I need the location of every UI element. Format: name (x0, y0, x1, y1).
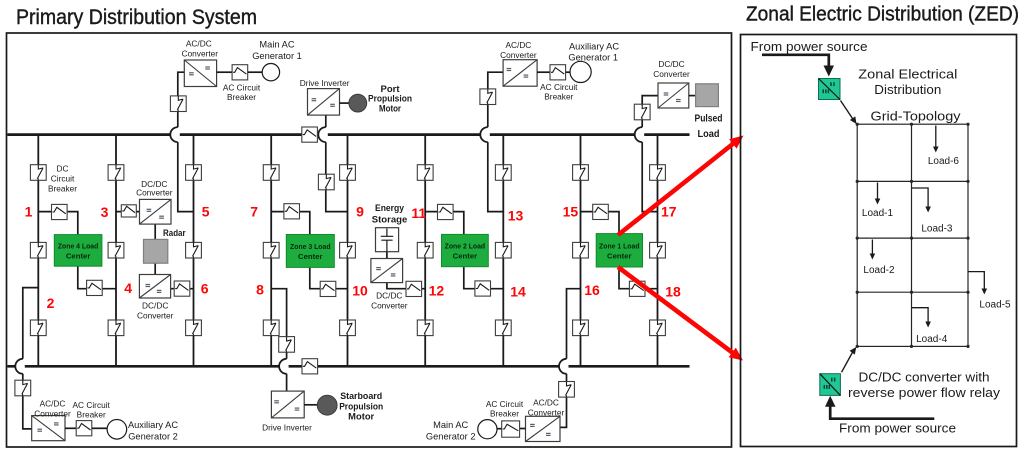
svg-text:Zone 3 Load: Zone 3 Load (290, 242, 331, 251)
svg-text:17: 17 (661, 204, 677, 220)
zone 3 load center (286, 235, 334, 268)
breaker pulsed feed (634, 104, 650, 120)
wire converter1 to breaker (217, 71, 233, 73)
wire radar to lower dcdc converter (154, 263, 156, 274)
wire zone2 top branch (425, 212, 464, 235)
wire bottom bus (7, 365, 689, 368)
breaker zone3 top branch (284, 204, 300, 219)
breaker v3 bottom row (186, 320, 202, 336)
wire zone1 top branch (581, 212, 620, 234)
breaker radar top (121, 205, 136, 217)
jump drive inverter2 feed over bottom bus (279, 359, 288, 374)
svg-text:AC/DC: AC/DC (505, 40, 531, 50)
svg-text:12: 12 (429, 283, 445, 299)
svg-text:Circuit: Circuit (51, 173, 75, 183)
breaker v5 middle row (340, 242, 356, 258)
wire top bus (7, 133, 689, 136)
right panel frame (741, 35, 1017, 447)
svg-text:AC Circuit: AC Circuit (223, 83, 261, 93)
jump drive inverter feed over top bus (318, 127, 328, 142)
svg-text:Drive Inverter: Drive Inverter (300, 78, 350, 88)
breaker v1 middle row (30, 242, 46, 258)
svg-text:Zone 4 Load: Zone 4 Load (58, 242, 99, 251)
svg-text:AC/DC: AC/DC (186, 39, 212, 49)
svg-text:2: 2 (47, 295, 55, 311)
svg-text:Propulsion: Propulsion (339, 401, 383, 411)
energy storage capacitor (376, 228, 399, 252)
breaker zone1 top branch (593, 204, 609, 219)
svg-text:8: 8 (256, 282, 264, 298)
ZED dc-dc converter bottom (820, 374, 841, 396)
svg-text:1: 1 (25, 204, 33, 220)
breaker v8 middle row (573, 242, 589, 258)
svg-text:Motor: Motor (348, 412, 374, 422)
main AC generator 2 (478, 420, 497, 439)
breaker v9 top row (650, 165, 666, 181)
svg-text:Distribution: Distribution (874, 82, 941, 97)
arrow load-5 (968, 272, 987, 295)
svg-text:Motor: Motor (379, 104, 401, 114)
pulsed load (696, 84, 719, 107)
svg-text:Breaker: Breaker (490, 409, 519, 419)
breaker drive inverter feed (318, 174, 334, 190)
wire vertical feeder v1 (37, 135, 39, 367)
arrow load-3 (912, 188, 931, 213)
starboard propulsion motor M2 (317, 395, 337, 415)
wire drive inverter2 feed (271, 289, 286, 391)
svg-text:Radar: Radar (163, 228, 186, 238)
svg-text:10: 10 (352, 283, 368, 299)
svg-text:AC Circuit: AC Circuit (540, 82, 578, 92)
wire inverter to port motor (340, 102, 350, 104)
dc-dc converter radar top (140, 199, 172, 224)
arrow from power source top (762, 55, 834, 77)
svg-text:reverse power flow relay: reverse power flow relay (848, 385, 1001, 400)
svg-text:13: 13 (508, 208, 524, 224)
ac circuit breaker CB1 (232, 65, 248, 80)
svg-text:Load-1: Load-1 (862, 208, 894, 219)
breaker maingen2 feed (559, 382, 575, 398)
svg-text:Center: Center (298, 252, 323, 261)
svg-text:9: 9 (356, 204, 364, 220)
wire converter2 feed (488, 72, 504, 211)
svg-text:Generator 1: Generator 1 (568, 53, 618, 63)
ac-dc converter U7 (526, 416, 561, 441)
breaker v4 top row (263, 165, 279, 181)
dc-dc converter energy storage (371, 259, 403, 283)
wire zone1 bottom branch (619, 267, 658, 289)
auxiliary AC generator 1 (570, 61, 591, 82)
svg-text:AC Circuit: AC Circuit (486, 399, 524, 409)
svg-text:Converter: Converter (500, 50, 537, 60)
breaker radar bottom (174, 281, 190, 296)
breaker v5 bottom row (340, 320, 356, 336)
svg-text:AC Circuit: AC Circuit (73, 400, 111, 410)
svg-text:Breaker: Breaker (77, 410, 106, 420)
breaker v5 top row (340, 165, 356, 181)
wire zone4 top branch (38, 212, 78, 235)
breaker zone4 top branch (52, 204, 68, 219)
wire zone3 top branch (271, 212, 310, 235)
wire converter1 feed (178, 72, 194, 211)
svg-text:Converter: Converter (182, 49, 219, 59)
wire vertical feeder v4 (270, 135, 272, 367)
breaker v2 top row (108, 165, 124, 181)
wire vertical feeder v8 (580, 135, 582, 367)
svg-text:Zonal Electrical: Zonal Electrical (858, 67, 957, 82)
wire drive inverter feed (326, 115, 348, 212)
breaker zone3 bottom branch (320, 281, 336, 296)
breaker v6 top row (417, 165, 433, 181)
svg-text:AC/DC: AC/DC (533, 398, 559, 408)
jump auxgen2 feed over bottom bus (15, 359, 25, 374)
wire breaker to generator1 (248, 71, 263, 73)
svg-text:11: 11 (411, 205, 426, 221)
svg-text:From power source: From power source (839, 421, 956, 436)
wire vertical feeder v6 (424, 135, 426, 367)
wire maingen2 feed (560, 289, 581, 428)
svg-text:Load: Load (698, 129, 720, 140)
svg-text:AC/DC: AC/DC (40, 399, 66, 409)
breaker v3 top row (186, 165, 202, 181)
breaker v1 top row (30, 165, 46, 181)
jump pulsed feed over top bus (635, 127, 645, 142)
breaker v9 bottom row (650, 320, 666, 336)
wire radar converter to radar (154, 224, 156, 239)
svg-text:DC/DC converter with: DC/DC converter with (859, 370, 990, 385)
left panel frame (7, 33, 732, 447)
wire vertical feeder v3 (193, 135, 195, 367)
breaker converter2 feed (480, 89, 496, 105)
ZED grid topology (856, 123, 970, 348)
wire vertical feeder v9 (657, 135, 659, 367)
port propulsion motor M1 (349, 94, 367, 112)
wire zone2 bottom branch (464, 267, 504, 289)
svg-text:Port: Port (381, 84, 400, 94)
breaker v8 bottom row (573, 320, 589, 336)
svg-text:Converter: Converter (136, 188, 173, 198)
svg-text:Center: Center (453, 252, 478, 261)
wire inverter2 to starboard motor (304, 404, 317, 406)
svg-text:Primary Distribution System: Primary Distribution System (16, 6, 257, 29)
breaker v4 middle row (263, 242, 279, 258)
breaker v7 middle row (495, 242, 511, 258)
wire breaker to aux generator1 (566, 71, 570, 73)
wire energy dcdc converter to v6 (387, 283, 425, 289)
wire vertical feeder v5 (347, 135, 349, 367)
breaker auxgen2 feed (15, 380, 31, 396)
svg-text:7: 7 (250, 204, 258, 220)
breaker zone4 bottom branch (87, 280, 103, 295)
ZED dc-dc converter top (819, 79, 841, 100)
svg-text:4: 4 (124, 280, 132, 296)
ac-dc converter U1 (184, 60, 216, 87)
breaker on top bus (302, 127, 318, 142)
svg-text:DC: DC (57, 163, 69, 173)
svg-text:From power source: From power source (751, 39, 868, 54)
svg-text:Generator 1: Generator 1 (252, 51, 302, 61)
breaker zone2 top branch (438, 204, 454, 219)
svg-text:5: 5 (202, 204, 210, 220)
svg-text:16: 16 (584, 282, 600, 298)
red arrow to ZED bottom (618, 267, 743, 361)
svg-text:Load-3: Load-3 (921, 224, 953, 235)
dc-dc converter U4 (658, 83, 689, 108)
svg-text:Drive Inverter: Drive Inverter (262, 422, 312, 432)
svg-text:Propulsion: Propulsion (368, 94, 412, 104)
zone 1 load center (596, 234, 642, 267)
wire converter2 to breaker (537, 71, 550, 73)
breaker energy storage branch (406, 281, 422, 296)
wire converter to pulsed load (689, 95, 696, 97)
radar load (144, 239, 168, 263)
arrow converter to grid top (841, 101, 857, 125)
wire converter U7 to breaker CB4 (520, 428, 526, 430)
svg-text:Breaker: Breaker (48, 184, 77, 194)
wire vertical feeder v7 (502, 135, 504, 367)
arrow load-6 (933, 126, 939, 153)
svg-text:Converter: Converter (34, 408, 71, 418)
arrow converter to grid bottom (842, 347, 857, 372)
breaker zone2 bottom branch (475, 281, 491, 296)
wire vertical feeder v2 (115, 135, 117, 367)
breaker v8 top row (573, 165, 589, 181)
svg-text:Main AC: Main AC (259, 40, 294, 50)
breaker v7 bottom row (495, 320, 511, 336)
svg-text:Storage: Storage (372, 214, 408, 225)
svg-text:DC/DC: DC/DC (376, 291, 402, 301)
svg-text:Generator 2: Generator 2 (426, 432, 476, 442)
svg-text:Center: Center (607, 251, 632, 260)
svg-text:Energy: Energy (375, 202, 405, 213)
drive inverter U2 (308, 89, 340, 116)
breaker v1 bottom row (30, 320, 46, 336)
jump converter1 feed over top bus (170, 127, 180, 142)
svg-text:Load-5: Load-5 (979, 300, 1011, 311)
breaker v4 bottom row (263, 320, 279, 336)
ac-dc converter U5 (32, 416, 65, 441)
svg-text:Load-6: Load-6 (928, 156, 960, 167)
svg-text:DC/DC: DC/DC (658, 59, 684, 69)
svg-text:Auxiliary AC: Auxiliary AC (128, 420, 178, 430)
svg-text:DC/DC: DC/DC (142, 301, 168, 311)
svg-text:Auxiliary AC: Auxiliary AC (569, 42, 619, 52)
svg-text:3: 3 (101, 204, 109, 220)
svg-text:Converter: Converter (528, 408, 565, 418)
svg-text:Converter: Converter (137, 311, 174, 321)
ac circuit breaker CB3 (76, 421, 92, 436)
wire auxgen2 feed (23, 288, 39, 429)
svg-text:6: 6 (201, 281, 209, 297)
wire breaker CB4 to main generator 2 (497, 428, 502, 430)
wire zone4 bottom branch (78, 266, 116, 289)
auxiliary AC generator 2 (107, 420, 127, 440)
svg-text:Zone 2 Load: Zone 2 Load (445, 242, 486, 251)
main AC generator 1 (262, 63, 279, 80)
svg-text:Load-4: Load-4 (916, 334, 948, 345)
breaker v2 middle row (108, 242, 124, 258)
arrow load-4 (912, 308, 931, 328)
ac-dc converter U3 (503, 60, 537, 86)
svg-text:18: 18 (665, 284, 681, 300)
svg-text:Load-2: Load-2 (863, 265, 895, 276)
wire breaker CB3 to aux generator 2 (92, 427, 107, 429)
breaker v7 top row (495, 165, 511, 181)
breaker zone1 bottom branch (629, 281, 645, 296)
breaker v3 middle row (186, 242, 202, 258)
ac circuit breaker CB4 (502, 421, 520, 437)
breaker v2 bottom row (108, 320, 124, 336)
svg-text:Grid-Topology: Grid-Topology (871, 109, 962, 124)
ac circuit breaker CB2 (550, 65, 566, 80)
wire pulsed dcdc feed (642, 96, 658, 212)
arrow load-1 (875, 183, 881, 205)
svg-text:Converter: Converter (653, 69, 690, 79)
breaker drive inverter2 feed (279, 337, 295, 353)
svg-text:Breaker: Breaker (544, 92, 573, 102)
wire converter to breaker CB3 (65, 427, 76, 429)
svg-text:Generator 2: Generator 2 (128, 431, 178, 441)
svg-text:Breaker: Breaker (227, 92, 256, 102)
arrow from power source bottom (825, 396, 934, 419)
dc-dc converter radar bottom (139, 275, 170, 299)
breaker v9 middle row (650, 242, 666, 258)
wire energy storage to dcdc converter (386, 252, 388, 259)
zone 2 load center (442, 234, 489, 266)
svg-text:Zone 1 Load: Zone 1 Load (599, 241, 640, 250)
breaker converter1 feed (170, 96, 186, 112)
svg-text:Center: Center (66, 252, 91, 261)
svg-text:Zonal Electric Distribution (Z: Zonal Electric Distribution (ZED) (746, 2, 1019, 25)
svg-text:Main AC: Main AC (433, 420, 468, 430)
svg-text:Starboard: Starboard (340, 391, 382, 401)
breaker on bottom bus (302, 359, 318, 374)
breaker v6 bottom row (417, 320, 433, 336)
arrow load-2 (870, 240, 876, 260)
svg-text:Pulsed: Pulsed (695, 114, 723, 125)
jump maingen2 feed over bottom bus (559, 359, 568, 374)
wire lower dcdc converter to v3 (171, 288, 194, 290)
red arrow to ZED top (618, 136, 744, 236)
svg-text:15: 15 (563, 204, 579, 220)
zone 4 load center (54, 235, 102, 267)
wire zone3 bottom branch (310, 267, 348, 288)
svg-text:Converter: Converter (371, 301, 408, 311)
drive inverter U6 (271, 391, 304, 418)
svg-text:14: 14 (510, 284, 526, 300)
wire v2 to radar converter (116, 211, 140, 213)
breaker v6 middle row (417, 242, 433, 258)
jump converter2 feed over top bus (480, 127, 490, 142)
